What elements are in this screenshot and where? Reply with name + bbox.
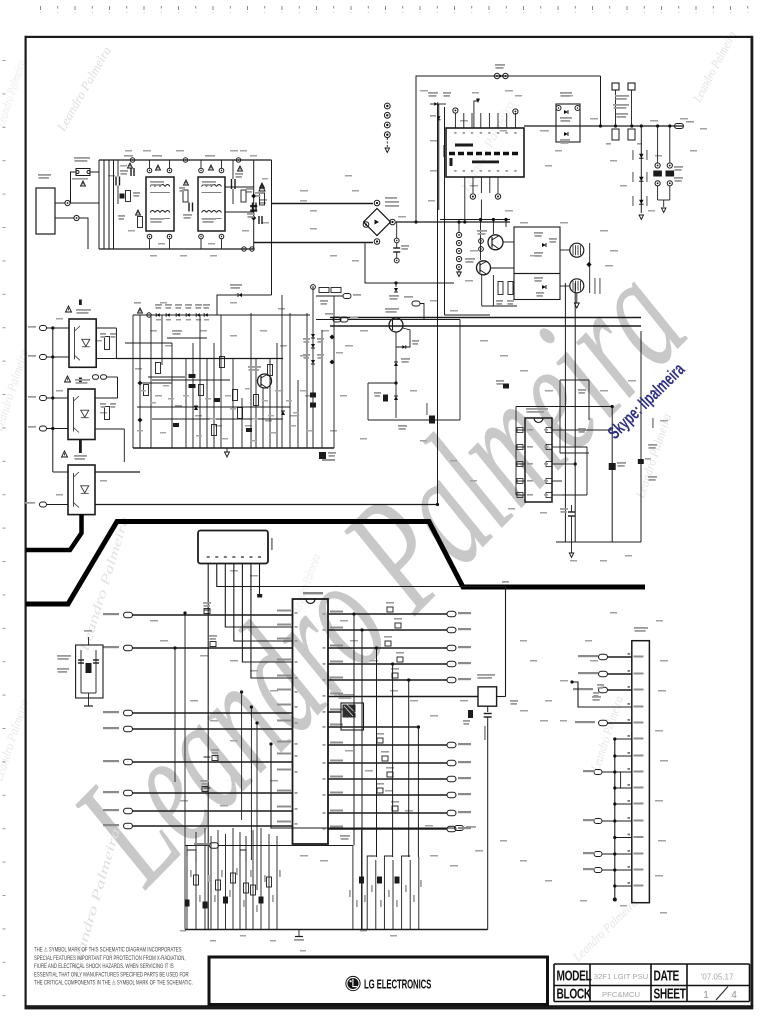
svg-text:THE ⚠ SYMBOL MARK OF THIS SC: THE ⚠ SYMBOL MARK OF THIS SCHEMATIC DIAG… bbox=[34, 947, 182, 954]
svg-text:SPECIAL FEATURES IMPORTANT FOR: SPECIAL FEATURES IMPORTANT FOR PROTECTIO… bbox=[34, 955, 186, 962]
svg-text:SHEET: SHEET bbox=[654, 986, 687, 1002]
svg-text:PFC&MCU: PFC&MCU bbox=[602, 990, 640, 999]
svg-text:FIURE AND ELECTRICAL SHOCK HAZ: FIURE AND ELECTRICAL SHOCK HAZARDS. WHEN… bbox=[34, 964, 174, 971]
svg-text:4: 4 bbox=[731, 990, 737, 1001]
svg-text:ESSENTIAL THAT ONLY MANUFACTUR: ESSENTIAL THAT ONLY MANUFACTURES SPECIFI… bbox=[34, 972, 189, 979]
svg-text:MODEL: MODEL bbox=[557, 968, 593, 984]
svg-text:1: 1 bbox=[703, 990, 709, 1001]
svg-text:DATE: DATE bbox=[654, 968, 680, 984]
svg-text:’07.05.17: ’07.05.17 bbox=[701, 973, 734, 982]
svg-text:32F1 LGIT PSU: 32F1 LGIT PSU bbox=[594, 972, 649, 981]
svg-text:LG ELECTRONICS: LG ELECTRONICS bbox=[364, 978, 431, 993]
svg-text:THE CRITICAL COMPONENTS IN THE: THE CRITICAL COMPONENTS IN THE ⚠ SYMBOL … bbox=[34, 980, 193, 987]
svg-text:BLOCK: BLOCK bbox=[557, 986, 592, 1002]
